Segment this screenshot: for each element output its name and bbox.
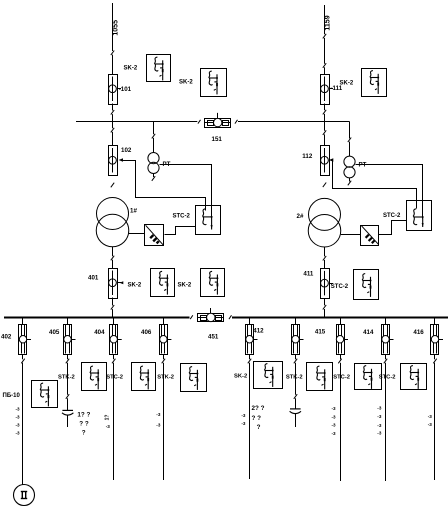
relay box feeder 415 (355, 364, 382, 390)
svg-text:404: 404 (94, 329, 105, 336)
svg-text:411: 411 (303, 271, 314, 278)
svg-text:-3: -3 (332, 406, 337, 411)
wire incoming line 1159 middle (324, 38, 326, 64)
wire incoming line 1055 to breaker 101 (112, 55, 114, 74)
wire to breaker 401 (112, 260, 114, 268)
svg-text:-3: -3 (428, 414, 433, 419)
wire bus drop at x=23 (22, 317, 24, 325)
relay box STC-2 left (196, 206, 221, 235)
disconnect tick below junction right (323, 130, 326, 135)
feeder breaker at x=385.5 (382, 325, 390, 355)
tick right of tie 151 (235, 120, 238, 124)
wire below feeder breaker x=435 (434, 354, 436, 359)
wire to breaker 112 (324, 134, 326, 145)
tick below feeder breaker x=385.5 (384, 359, 387, 364)
relay box feeder 406 (181, 364, 207, 392)
svg-text:? ?: ? ? (79, 421, 89, 428)
tick left of tie 451 (190, 315, 193, 319)
wire below feeder breaker x=249.5 (249, 354, 251, 359)
disconnect tick on incoming line 1159 (323, 34, 326, 39)
wire right PT branch lower (349, 142, 351, 157)
svg-text:-3: -3 (332, 414, 337, 419)
relay box SK-2 (411 row) (354, 270, 379, 300)
feeder breaker at x=435 (431, 325, 439, 355)
wire right PT secondary to relay box (356, 165, 423, 219)
rectifier box 1 (145, 225, 164, 246)
svg-text:112: 112 (302, 153, 313, 160)
svg-text:406: 406 (141, 329, 152, 336)
wire PT branch lower (153, 138, 155, 153)
wire to main bus left (112, 309, 114, 317)
feeder breaker at x=295.5 (292, 325, 300, 355)
feeder f6 line to capacitor (295, 363, 297, 395)
wire main left below junction (112, 122, 114, 129)
wire transformer 1# below (112, 247, 114, 256)
svg-text:1#: 1# (130, 208, 137, 215)
svg-text:-3: -3 (241, 413, 246, 418)
transformer 1# (97, 198, 129, 230)
wire breaker 112 CT to relay box STC-2 right (333, 161, 417, 209)
wire to breaker 102 (112, 132, 114, 146)
feeder line down x=340 (340, 363, 342, 481)
wire below feeder breaker x=113.7 (113, 354, 115, 359)
svg-text:-3: -3 (156, 423, 161, 428)
disconnect tick above upper bus right (323, 110, 326, 115)
svg-text:-3: -3 (16, 407, 21, 412)
wire to main bus right (324, 309, 326, 317)
main bus left section (4, 317, 190, 319)
feeder breaker at x=23 (19, 325, 27, 355)
svg-text:SK-2: SK-2 (124, 66, 138, 72)
svg-text:-3: -3 (377, 406, 382, 411)
breaker 411 (321, 269, 330, 299)
wire to capacitor 405 (67, 398, 69, 410)
wire incoming line to breaker 111 (324, 67, 326, 74)
tick left of tie 151 (198, 120, 201, 124)
wire below feeder breaker f6 (295, 354, 297, 359)
svg-text:-3: -3 (377, 423, 382, 428)
feeder breaker at x=113.7 (110, 325, 118, 355)
tick below transformer 1# (111, 256, 114, 261)
svg-text:?: ? (257, 424, 261, 431)
wire PT branch from upper bus (153, 122, 155, 135)
wire incoming line 1159 upper segment (324, 5, 326, 34)
tick above capacitor f6 (294, 394, 297, 399)
svg-text:412: 412 (253, 328, 264, 335)
relay box STC-2 right (407, 201, 432, 231)
svg-text:1055: 1055 (112, 20, 119, 36)
tick below feeder breaker 405 (66, 359, 69, 364)
svg-text:SK-2: SK-2 (178, 283, 192, 289)
breaker 102 (109, 146, 118, 176)
capacitor stem 405 (67, 415, 69, 427)
disconnect tick above upper bus left (111, 110, 114, 115)
capacitor feeder f6 (290, 409, 301, 414)
svg-text:SK-2: SK-2 (340, 81, 354, 87)
wire to capacitor f6 (295, 398, 297, 408)
svg-text:-3: -3 (428, 422, 433, 427)
svg-text:-101: -101 (119, 86, 132, 93)
disconnect tick below junction left (111, 128, 114, 133)
main bus right section (232, 317, 448, 319)
wire transformer 2# tertiary to rectifier (341, 234, 361, 236)
svg-text:STC-2: STC-2 (106, 375, 123, 381)
wire rectifier 2 to relay box STC-2 right (379, 221, 407, 235)
wire breaker 401 to bus (112, 298, 114, 306)
arrow at breaker 112 (329, 158, 333, 162)
svg-text:SK-2: SK-2 (128, 283, 142, 289)
wire below feeder breaker x=340 (340, 354, 342, 359)
relay box feeder 414 (401, 364, 427, 390)
breaker 101 (109, 75, 118, 105)
wire below feeder breaker 405 (67, 354, 69, 359)
relay box SK-2 (401 row 2) (201, 269, 225, 297)
wire bus drop at x=435 (434, 317, 436, 325)
relay box SK-2 (upper left 2) (201, 69, 227, 97)
feeder line down x=385.5 (385, 363, 387, 481)
svg-text:STK-2: STK-2 (286, 375, 303, 381)
tie disconnector 151 (205, 113, 231, 128)
rectifier box 2 (361, 226, 379, 246)
tick below feeder breaker x=163.4 (162, 359, 165, 364)
svg-text:-3: -3 (377, 431, 382, 436)
svg-text:STC-2: STC-2 (379, 375, 396, 381)
tick below breaker 401 (111, 305, 114, 310)
capacitor stem f6 (295, 414, 297, 427)
svg-text:STC-2: STC-2 (383, 213, 401, 219)
svg-text:? ?: ? ? (252, 415, 262, 422)
wire bus drop at x=67.5 (67, 317, 69, 325)
voltage transformer PT right (344, 156, 355, 167)
svg-text:402: 402 (1, 334, 12, 341)
tick below feeder breaker x=23 (21, 359, 24, 364)
relay box SK-2 (upper right) (362, 69, 387, 97)
svg-text:151: 151 (212, 136, 223, 143)
svg-text:1159: 1159 (325, 15, 332, 30)
feeder line down x=435 (434, 363, 436, 480)
relay box feeder 405 (82, 363, 107, 391)
svg-text:-3: -3 (332, 423, 337, 428)
svg-text:2#: 2# (297, 213, 304, 220)
wire bus drop at x=385.5 (385, 317, 387, 325)
svg-text:451: 451 (208, 334, 219, 341)
feeder breaker at x=340 (337, 325, 345, 355)
svg-text:?: ? (82, 430, 86, 437)
svg-text:102: 102 (121, 147, 132, 154)
svg-text:STK-2: STK-2 (157, 375, 174, 381)
tick below feeder breaker x=249.5 (248, 359, 251, 364)
svg-text:401: 401 (88, 275, 99, 282)
svg-text:STC-2: STC-2 (173, 214, 191, 220)
wire breaker 101 to junction (112, 104, 114, 111)
wire below feeder breaker x=385.5 (385, 354, 387, 359)
feeder line down x=113.7 (113, 363, 115, 480)
wire to upper bus junction right (324, 114, 326, 122)
svg-text:405: 405 (49, 329, 60, 336)
wire bus drop at x=295.5 (295, 317, 297, 325)
tick below feeder breaker f6 (294, 359, 297, 364)
feeder line down x=163.4 (163, 363, 165, 480)
wire below feeder breaker x=163.4 (163, 354, 165, 359)
tick below PT left (152, 176, 155, 181)
disconnect tick on incoming line 1055 (111, 51, 114, 56)
svg-text:SK-2: SK-2 (234, 374, 247, 380)
breaker 111 (321, 75, 330, 105)
feeder 405 line to capacitor (67, 363, 69, 395)
tick above transformer 2# (323, 183, 326, 188)
ground transformer circle with II (14, 485, 35, 506)
tick right of tie 451 (229, 315, 232, 319)
wire transformer 1# tertiary to rectifier (129, 233, 145, 235)
wire bus drop at x=340 (340, 317, 342, 325)
arrow at breaker 102 (119, 158, 123, 162)
feeder breaker at x=163.4 (160, 325, 168, 355)
svg-text:1? ?: 1? ? (77, 412, 90, 419)
svg-text:ПБ-10: ПБ-10 (3, 393, 21, 399)
tick below feeder breaker x=113.7 (112, 359, 115, 364)
relay box SK-2 (upper left 1) (147, 55, 171, 82)
relay box feeder 402 (32, 381, 58, 408)
relay box feeder f6 (307, 363, 333, 391)
tie disconnector 451 (198, 308, 224, 322)
wire to breaker 411 (324, 260, 326, 269)
svg-text:-3: -3 (156, 412, 161, 417)
svg-text:STK-2: STK-2 (58, 375, 75, 381)
upper tie bus right end turning down to PT (349, 122, 351, 139)
upper tie bus right segment (238, 121, 350, 123)
svg-text:-3: -3 (16, 431, 21, 436)
tick above capacitor 405 (66, 394, 69, 399)
capacitor feeder 405 (62, 410, 73, 415)
wire below feeder breaker x=23 (22, 354, 24, 359)
svg-text:415: 415 (315, 328, 326, 335)
feeder breaker at x=249.5 (246, 325, 254, 355)
wire bus drop at x=113.7 (113, 317, 115, 325)
tick above transformer 1# (111, 183, 114, 188)
voltage transformer PT left (148, 153, 159, 164)
svg-text:STC-2: STC-2 (331, 284, 349, 290)
wire breaker 411 to bus (324, 298, 326, 305)
svg-text:-3: -3 (106, 424, 111, 429)
tick below transformer 2# (323, 256, 326, 261)
tick below feeder breaker x=340 (338, 359, 341, 364)
arrowhead at breaker 401 lead (120, 281, 124, 284)
tick below PT right (348, 181, 351, 186)
relay box feeder 404 (132, 363, 156, 391)
tick below breaker 411 (323, 305, 326, 310)
svg-text:-3: -3 (377, 414, 382, 419)
wire to upper bus junction (112, 114, 114, 121)
disconnect tick 2 on incoming line 1159 (323, 63, 326, 68)
wire PT secondary to relay box (160, 165, 212, 219)
tick on right PT branch (348, 138, 351, 143)
relay box SK-2 (401 row 1) (151, 269, 175, 297)
svg-text:-3: -3 (16, 423, 21, 428)
svg-text:1?: 1? (104, 415, 110, 421)
wire PT bottom stub (153, 174, 155, 178)
wire breaker 102 CT to relay box STC-2 (123, 161, 206, 211)
tick below feeder breaker x=435 (433, 359, 436, 364)
tick on PT branch (152, 134, 155, 139)
feeder breaker at x=67.5 (64, 325, 72, 355)
svg-text:STC-2: STC-2 (333, 375, 350, 381)
wire bus drop at x=249.5 (249, 317, 251, 325)
feeder line down x=23 (22, 363, 24, 485)
wire bus drop at x=163.4 (163, 317, 165, 325)
wire transformer 2# below (324, 247, 326, 256)
relay box feeder 412 (254, 362, 283, 389)
svg-text:416: 416 (413, 329, 424, 336)
svg-text:414: 414 (363, 329, 374, 336)
feeder line down x=249.5 (249, 363, 251, 479)
breaker 401 (109, 269, 118, 299)
upper tie bus left segment (76, 121, 197, 123)
svg-text:SK-2: SK-2 (179, 80, 193, 86)
breaker 112 (321, 146, 330, 176)
wire incoming line 1055 upper segment (112, 3, 114, 51)
svg-text:2? ?: 2? ? (252, 405, 265, 412)
svg-text:-3: -3 (241, 421, 246, 426)
wire breaker 111 to junction (324, 104, 326, 111)
svg-text:-3: -3 (332, 431, 337, 436)
svg-text:-3: -3 (16, 415, 21, 420)
wire rectifier to relay box STC-2 (165, 227, 196, 235)
wire main right below junction (324, 122, 326, 131)
transformer 2# (309, 198, 341, 230)
wire right PT bottom stub (349, 178, 351, 182)
